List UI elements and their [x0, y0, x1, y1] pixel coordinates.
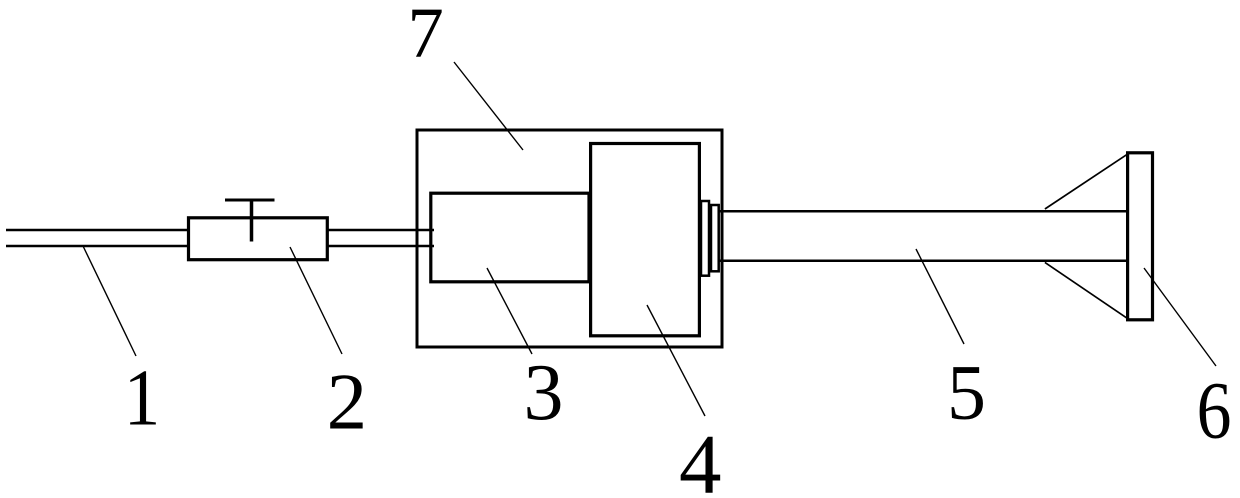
- leader line 1: [83, 246, 136, 356]
- svg-text:1: 1: [124, 352, 160, 442]
- coupling plate A: [701, 201, 709, 276]
- svg-text:3: 3: [524, 349, 564, 437]
- valve handle T-bar: [225, 199, 275, 202]
- pipe 1 upper wire: [6, 229, 188, 232]
- pipe 1 lower wire: [6, 245, 188, 248]
- leader line 2: [290, 247, 342, 354]
- svg-text:5: 5: [947, 349, 986, 436]
- end plate 6: [1128, 153, 1153, 320]
- svg-text:2: 2: [327, 357, 368, 447]
- svg-text:7: 7: [407, 0, 443, 73]
- cylinder 3: [431, 193, 589, 282]
- leader line 5: [916, 249, 964, 344]
- leader line 3: [487, 268, 532, 354]
- housing 7: [417, 130, 722, 347]
- svg-text:6: 6: [1197, 365, 1232, 456]
- rod 5 top line: [719, 210, 1128, 213]
- leader line 4: [647, 305, 705, 416]
- svg-text:4: 4: [679, 417, 722, 498]
- block 4: [591, 144, 700, 336]
- pipe between valve 2 and cylinder 3 lower wire: [327, 245, 434, 248]
- coupling plate B: [711, 205, 719, 271]
- leader line 7: [454, 62, 523, 150]
- leader line 6: [1144, 268, 1216, 366]
- cone upper diagonal: [1045, 154, 1128, 209]
- valve stem: [250, 200, 254, 242]
- valve body 2: [189, 218, 328, 260]
- cone lower diagonal: [1045, 262, 1128, 318]
- rod 5 bottom line: [719, 260, 1128, 263]
- pipe between valve 2 and cylinder 3 upper wire: [327, 229, 434, 232]
